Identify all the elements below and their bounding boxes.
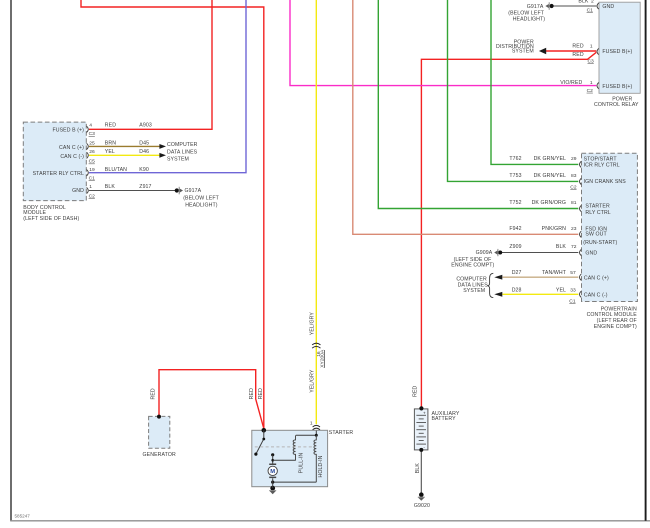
svg-text:4: 4 xyxy=(89,123,92,129)
wire label BLU/TAN K90 xyxy=(105,167,149,173)
wire label BLK 2 relay xyxy=(578,0,594,5)
svg-text:RED: RED xyxy=(249,388,255,399)
svg-text:C3: C3 xyxy=(588,58,595,64)
generator caption xyxy=(143,452,176,458)
svg-text:IGN CRANK SNS: IGN CRANK SNS xyxy=(584,179,627,185)
svg-text:BLK: BLK xyxy=(105,184,116,190)
svg-text:33: 33 xyxy=(570,287,576,293)
BCM pin label FUSED B (+) xyxy=(52,128,84,134)
svg-text:T753: T753 xyxy=(509,173,521,179)
starter switch pivot node xyxy=(262,438,265,441)
svg-text:C2: C2 xyxy=(89,193,96,199)
relay caption xyxy=(594,96,639,108)
svg-text:VIO/RED: VIO/RED xyxy=(560,80,582,86)
wire label BLK at battery ground xyxy=(415,463,421,474)
svg-text:RED: RED xyxy=(413,385,419,396)
wire RED battery feed from relay xyxy=(421,52,596,408)
BCM pin bracket pin 4 xyxy=(87,126,89,132)
PCM pin bracket pin 81 xyxy=(580,205,582,211)
svg-text:C1: C1 xyxy=(89,176,96,182)
battery caption xyxy=(432,411,460,422)
svg-text:+: + xyxy=(423,411,426,416)
PCM pin label CAN C (-) xyxy=(584,292,608,298)
inline connector XY200A on yellow wire xyxy=(312,343,320,348)
PCM connector C1 xyxy=(569,299,576,305)
PCM pin label IGN CRANK SNS xyxy=(584,179,627,185)
svg-text:CAN C (+): CAN C (+) xyxy=(584,275,609,281)
BCM pin bracket pin 25 xyxy=(87,143,89,149)
PCM pin bracket pin 72 xyxy=(580,249,582,255)
svg-text:ENGINE COMPT): ENGINE COMPT) xyxy=(594,324,637,330)
svg-text:(BELOW LEFT: (BELOW LEFT xyxy=(183,196,219,202)
svg-text:XY200A: XY200A xyxy=(320,349,326,368)
power distribution system label xyxy=(496,39,534,54)
wire label BLK Z917 xyxy=(105,184,152,190)
BCM pin bracket pin 19 xyxy=(87,170,89,176)
svg-text:HEADLIGHT): HEADLIGHT) xyxy=(185,202,218,208)
brace computer data lines system xyxy=(488,273,494,297)
svg-text:(BELOW LEFT: (BELOW LEFT xyxy=(508,10,544,16)
svg-text:1: 1 xyxy=(310,420,313,426)
coil label HOLD-IN xyxy=(318,455,324,477)
computer data lines system label left xyxy=(167,142,198,163)
battery minus sign xyxy=(423,445,425,450)
starter coils top wire xyxy=(296,434,317,436)
BCM connector C2 xyxy=(89,193,96,199)
frame right vertical line xyxy=(645,0,647,521)
svg-text:F942: F942 xyxy=(509,226,521,232)
relay pin bracket pin 2 xyxy=(597,3,599,9)
relay pin label GND xyxy=(602,4,614,10)
starter caption xyxy=(329,430,354,436)
ground G9020 at battery xyxy=(418,492,425,500)
PCM pin label FSD IGN SW OUT (RUN-START) xyxy=(583,226,617,246)
powertrain control module box xyxy=(582,153,638,301)
svg-text:HOLD-IN: HOLD-IN xyxy=(318,455,324,477)
BCM connector C5 xyxy=(89,159,96,165)
svg-text:81: 81 xyxy=(571,200,577,206)
svg-text:FUSED B(+): FUSED B(+) xyxy=(602,49,632,55)
ground label G917A below left headlight xyxy=(183,188,219,208)
BCM connector C1 xyxy=(89,176,96,182)
starter coils feed node xyxy=(315,434,318,437)
wire label D27 TAN/WHT 57 xyxy=(512,270,576,276)
junction node battery negative xyxy=(419,448,423,452)
svg-text:BLK: BLK xyxy=(556,244,567,250)
svg-text:YEL: YEL xyxy=(105,149,115,155)
wire DK GRN/YEL T753 xyxy=(448,0,579,181)
svg-text:FUSED B(+): FUSED B(+) xyxy=(602,84,632,90)
starter wire contact to motor xyxy=(272,455,274,464)
BCM pin label CAN C (-) xyxy=(60,154,84,160)
wire label Z909 BLK 72 xyxy=(509,244,576,250)
svg-text:23: 23 xyxy=(571,226,577,232)
sheet number 585247 xyxy=(15,514,31,519)
relay pin label FUSED B(+) C2 xyxy=(602,84,632,90)
relay connector C3 xyxy=(588,58,595,64)
relay connector C2 xyxy=(587,88,594,94)
svg-text:83: 83 xyxy=(571,173,577,179)
PCM pin bracket pin 33 xyxy=(580,291,582,297)
svg-text:FUSED B (+): FUSED B (+) xyxy=(52,128,84,134)
svg-text:RED: RED xyxy=(105,123,116,129)
svg-text:G9020: G9020 xyxy=(414,503,430,509)
wire RED generator branch xyxy=(159,370,264,429)
frame left vertical line xyxy=(10,0,12,521)
svg-text:HEADLIGHT): HEADLIGHT) xyxy=(513,17,546,23)
generator box xyxy=(149,416,170,448)
svg-text:DK GRN/ORG: DK GRN/ORG xyxy=(532,200,566,206)
svg-text:CAN C (+): CAN C (+) xyxy=(59,145,84,151)
svg-text:SYSTEM: SYSTEM xyxy=(167,157,189,163)
svg-text:(LEFT SIDE OF DASH): (LEFT SIDE OF DASH) xyxy=(23,216,79,222)
svg-text:G909A: G909A xyxy=(476,250,493,256)
svg-text:BLU/TAN: BLU/TAN xyxy=(105,167,127,173)
BCM pin label GND xyxy=(72,188,84,194)
PCM pin bracket pin 29 xyxy=(580,161,582,167)
svg-text:PNK/GRN: PNK/GRN xyxy=(542,226,566,232)
svg-text:CONTROL RELAY: CONTROL RELAY xyxy=(594,102,639,108)
junction node starter B+ xyxy=(262,428,267,433)
PCM pin bracket pin 57 xyxy=(580,274,582,280)
wire RED fused feed from off-page top to starter B+ xyxy=(81,0,264,430)
svg-text:D28: D28 xyxy=(512,287,522,293)
svg-text:C2: C2 xyxy=(587,88,594,94)
svg-text:DK GRN/YEL: DK GRN/YEL xyxy=(534,156,566,162)
svg-text:C1: C1 xyxy=(587,8,594,14)
PCM pin bracket pin 23 xyxy=(580,231,582,237)
arrow to power distribution system xyxy=(539,48,546,54)
svg-text:Z909: Z909 xyxy=(509,244,521,250)
svg-text:YEL: YEL xyxy=(556,287,566,293)
svg-text:PULL-IN: PULL-IN xyxy=(298,452,304,473)
power control relay box xyxy=(599,2,640,93)
ground label G917A at relay xyxy=(508,4,545,23)
svg-text:GND: GND xyxy=(602,4,614,10)
wire label RED below arrow xyxy=(572,52,583,58)
computer data lines system label right xyxy=(456,276,488,294)
auxiliary battery box xyxy=(414,409,428,450)
arrow to computer data lines (BRN) xyxy=(159,144,166,149)
wire BLK relay ground xyxy=(553,5,597,7)
wire RED arrow branch to power distribution system xyxy=(546,50,597,52)
svg-text:GND: GND xyxy=(72,188,84,194)
svg-text:RED: RED xyxy=(572,52,583,58)
starter switch open contact node xyxy=(254,453,257,456)
svg-text:STARTER: STARTER xyxy=(329,430,354,436)
svg-text:C2: C2 xyxy=(570,185,577,191)
svg-text:RED: RED xyxy=(258,388,264,399)
ground G917A at BCM xyxy=(175,187,183,195)
svg-text:D45: D45 xyxy=(139,141,149,147)
wire YEL D28 xyxy=(503,293,579,295)
svg-text:ICR RLY CTRL: ICR RLY CTRL xyxy=(584,163,620,169)
wire DK GRN/YEL T762 xyxy=(491,0,578,164)
arrow from computer data lines (TAN/WHT) xyxy=(494,275,502,280)
ground G909A at PCM xyxy=(494,249,502,256)
BCM pin 25 xyxy=(89,141,95,147)
svg-text:G917A: G917A xyxy=(185,188,202,194)
svg-text:19: 19 xyxy=(89,167,95,173)
wire DK GRN/ORG T752 xyxy=(378,0,578,209)
svg-text:SYSTEM: SYSTEM xyxy=(512,49,534,55)
wire VIO/RED to power control relay xyxy=(290,0,596,86)
BCM pin 1 xyxy=(89,184,92,190)
battery plates xyxy=(416,415,426,444)
svg-text:G917A: G917A xyxy=(527,4,544,10)
svg-text:T752: T752 xyxy=(509,200,521,206)
wire label RED at main feed xyxy=(258,388,264,399)
pull-in coil xyxy=(293,435,295,460)
coil label PULL-IN xyxy=(298,452,304,473)
svg-text:SYSTEM: SYSTEM xyxy=(463,288,485,294)
ground label G9020 xyxy=(414,503,430,509)
svg-text:BLK: BLK xyxy=(578,0,589,5)
wire label T753 DK GRN/YEL 83 xyxy=(509,173,576,179)
PCM pin label STOP/START ICR RLY CTRL xyxy=(584,156,620,168)
svg-text:D27: D27 xyxy=(512,270,522,276)
svg-text:BATTERY: BATTERY xyxy=(432,416,457,422)
PCM pin label GND xyxy=(585,251,597,257)
wire YEL D46 xyxy=(89,154,160,156)
arrow from computer data lines (YEL D28) xyxy=(494,292,502,297)
wire YEL/GRY starter feed xyxy=(315,0,317,424)
svg-text:585247: 585247 xyxy=(15,514,31,519)
svg-text:YEL/GRY: YEL/GRY xyxy=(310,369,316,393)
BCM pin 4 xyxy=(89,123,92,129)
svg-text:25: 25 xyxy=(89,141,95,147)
starter motor M xyxy=(268,464,277,489)
svg-text:26: 26 xyxy=(89,149,95,155)
svg-text:1: 1 xyxy=(590,80,593,86)
wire label RED at battery feed xyxy=(413,385,419,396)
svg-text:SW OUT: SW OUT xyxy=(585,232,607,238)
PCM pin label STARTER RLY CTRL xyxy=(585,204,610,216)
inline connector at starter terminal 1 xyxy=(313,425,320,429)
svg-text:BLK: BLK xyxy=(415,463,421,474)
wire PNK/GRN F942 xyxy=(353,0,579,234)
wire BLU/TAN K90 xyxy=(89,0,246,173)
wire label RED 1 relay C3 xyxy=(572,43,592,49)
starter mechanical linkage dashed xyxy=(255,446,315,448)
svg-text:M: M xyxy=(270,469,275,475)
svg-text:DK GRN/YEL: DK GRN/YEL xyxy=(534,173,566,179)
wire label T752 DK GRN/ORG 81 xyxy=(509,200,576,206)
svg-text:(RUN-START): (RUN-START) xyxy=(583,240,617,246)
BCM pin 19 xyxy=(89,167,95,173)
wire BRN D45 xyxy=(89,145,160,147)
svg-text:1: 1 xyxy=(590,43,593,49)
BCM pin bracket pin 26 xyxy=(87,152,89,158)
BCM pin bracket pin 1 xyxy=(87,187,89,193)
starter box xyxy=(252,430,328,486)
svg-text:C1: C1 xyxy=(569,299,576,305)
svg-text:A903: A903 xyxy=(139,123,152,129)
starter node to pull-in coil xyxy=(271,459,274,462)
svg-text:2: 2 xyxy=(591,0,594,5)
svg-text:STOP/START: STOP/START xyxy=(584,156,618,162)
wire label YEL/GRY lower xyxy=(310,369,316,393)
svg-text:57: 57 xyxy=(570,270,576,276)
relay connector C1 xyxy=(587,8,594,14)
starter fixed contact node xyxy=(271,453,274,456)
WIRES-LAYER xyxy=(81,0,596,494)
svg-text:GENERATOR: GENERATOR xyxy=(143,452,176,458)
BCM pin label STARTER RLY CTRL xyxy=(33,171,84,177)
PCM pin label CAN C (+) xyxy=(584,275,609,281)
svg-text:YEL/GRY: YEL/GRY xyxy=(310,312,316,336)
svg-text:C3: C3 xyxy=(89,131,96,137)
svg-text:RED: RED xyxy=(572,43,583,49)
svg-text:COMPUTER: COMPUTER xyxy=(167,142,198,148)
hold-in coil return wire xyxy=(273,481,317,483)
relay pin bracket pin 1 C2 xyxy=(597,83,599,89)
svg-text:Z917: Z917 xyxy=(139,184,151,190)
ground G917A at relay xyxy=(545,2,553,10)
ground at starter motor xyxy=(269,486,276,494)
starter terminal 1 xyxy=(310,420,313,426)
wire label RED at branch xyxy=(249,388,255,399)
svg-text:T762: T762 xyxy=(509,156,521,162)
wire label T762 DK GRN/YEL 29 xyxy=(509,156,576,162)
svg-text:1: 1 xyxy=(89,184,92,190)
starter internal: feed stub and switch xyxy=(256,430,264,454)
svg-text:D46: D46 xyxy=(139,149,149,155)
svg-text:CAN C (-): CAN C (-) xyxy=(584,292,608,298)
hold-in coil xyxy=(314,435,316,482)
wire RED A903 BCM fused B(+) xyxy=(89,0,212,129)
BCM pin 26 xyxy=(89,149,95,155)
svg-text:GND: GND xyxy=(585,251,597,257)
connector label XY200A xyxy=(320,349,326,368)
PCM pin bracket pin 83 xyxy=(580,178,582,184)
frame bottom border xyxy=(10,520,650,522)
underline for XY200A xyxy=(324,350,326,368)
battery plus sign xyxy=(423,411,426,416)
svg-text:STARTER RLY CTRL: STARTER RLY CTRL xyxy=(33,171,84,177)
BCM caption xyxy=(23,205,79,222)
relay pin bracket pin 1 C3 xyxy=(597,48,599,54)
wire label F942 PNK/GRN 23 xyxy=(509,226,576,232)
PCM connector C2 xyxy=(570,185,577,191)
wire label RED at generator xyxy=(151,388,157,399)
svg-text:72: 72 xyxy=(571,244,577,250)
svg-text:CAN C (-): CAN C (-) xyxy=(60,154,84,160)
svg-text:BRN: BRN xyxy=(105,141,116,147)
svg-text:C5: C5 xyxy=(89,159,96,165)
svg-text:RLY CTRL: RLY CTRL xyxy=(585,210,610,216)
PCM caption xyxy=(587,306,638,329)
wire TAN/WHT D27 xyxy=(503,276,579,278)
starter terminal 1 wire into box xyxy=(315,431,317,436)
ground label G909A left side of engine compt xyxy=(451,250,494,269)
wire label YEL D46 xyxy=(105,149,149,155)
wire label YEL/GRY upper xyxy=(310,312,316,336)
starter wire to pull-in coil bottom xyxy=(273,459,296,461)
svg-text:TAN/WHT: TAN/WHT xyxy=(542,270,567,276)
wire label VIO/RED 1 xyxy=(560,80,593,86)
svg-text:K90: K90 xyxy=(139,167,149,173)
wire BLK battery ground xyxy=(420,450,422,494)
connector pin 16 XY200A xyxy=(316,351,322,357)
svg-text:STARTER: STARTER xyxy=(585,204,610,210)
relay pin label FUSED B(+) C3 xyxy=(602,49,632,55)
arrow to computer data lines (YEL) xyxy=(159,153,166,158)
wire label BRN D45 xyxy=(105,141,149,147)
junction node battery positive xyxy=(419,406,423,410)
wire BLK Z909 PCM ground xyxy=(501,252,578,254)
body control module box xyxy=(23,122,86,201)
motor bottom node xyxy=(271,481,274,484)
BCM connector C3 xyxy=(89,131,96,137)
svg-text:RED: RED xyxy=(151,388,157,399)
svg-text:ENGINE COMPT): ENGINE COMPT) xyxy=(451,263,494,269)
junction node generator B+ xyxy=(157,415,161,419)
wire label D28 YEL 33 xyxy=(512,287,576,293)
svg-text:29: 29 xyxy=(571,156,577,162)
svg-text:DATA LINES: DATA LINES xyxy=(167,150,198,156)
wire label RED A903 xyxy=(105,123,152,129)
BCM pin label CAN C (+) xyxy=(59,145,84,151)
wire BLK Z917 BCM ground xyxy=(89,190,175,192)
